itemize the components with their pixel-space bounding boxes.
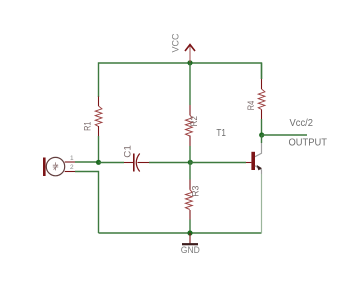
svg-text:R3: R3 — [191, 186, 201, 197]
svg-text:Vcc/2: Vcc/2 — [290, 117, 314, 129]
wire mic pin1 to node — [75, 161, 99, 163]
svg-text:1: 1 — [70, 155, 74, 162]
node VCC junction — [187, 60, 192, 65]
wire VCC to R2 — [189, 63, 191, 105]
svg-text:R4: R4 — [246, 101, 256, 111]
wire mic pin2 return — [75, 172, 99, 234]
node collector junction — [259, 132, 264, 137]
wire emitter to bottom rail — [261, 174, 263, 233]
resistor R3 — [186, 180, 193, 220]
microphone M1 — [43, 155, 75, 176]
capacitor C1 — [124, 154, 149, 172]
svg-text:GND: GND — [181, 245, 200, 256]
wire R3 to ground rail — [189, 220, 191, 234]
svg-text:C1: C1 — [122, 145, 132, 158]
wire top rail to R4 — [261, 63, 263, 79]
svg-text:R2: R2 — [189, 116, 199, 126]
transistor T1 — [246, 135, 262, 174]
node center junction — [188, 160, 193, 165]
wire R2 to center node — [189, 146, 191, 163]
svg-text:OUTPUT: OUTPUT — [289, 137, 328, 149]
wire center node to base — [190, 162, 246, 164]
VCC power symbol — [185, 45, 195, 63]
svg-text:R1: R1 — [82, 122, 92, 131]
node ground junction — [187, 230, 192, 235]
svg-text:2: 2 — [70, 164, 74, 171]
wire node to C1 — [99, 162, 125, 164]
wire output — [262, 134, 308, 136]
svg-text:VCC: VCC — [171, 33, 182, 52]
wire R1 to input node — [98, 136, 100, 163]
resistor R2 — [186, 105, 193, 146]
wire top rail right segment — [190, 63, 262, 79]
wire center node to R3 — [189, 163, 191, 180]
node input junction — [96, 160, 101, 165]
svg-text:T1: T1 — [216, 127, 226, 139]
resistor R1 — [95, 97, 102, 137]
resistor R4 — [258, 79, 265, 119]
wire bottom rail — [99, 232, 262, 234]
wire R4 to collector node — [261, 119, 263, 135]
wire C1 to center node — [149, 162, 190, 164]
wire top rail left segment — [99, 63, 191, 97]
ground — [182, 233, 198, 244]
